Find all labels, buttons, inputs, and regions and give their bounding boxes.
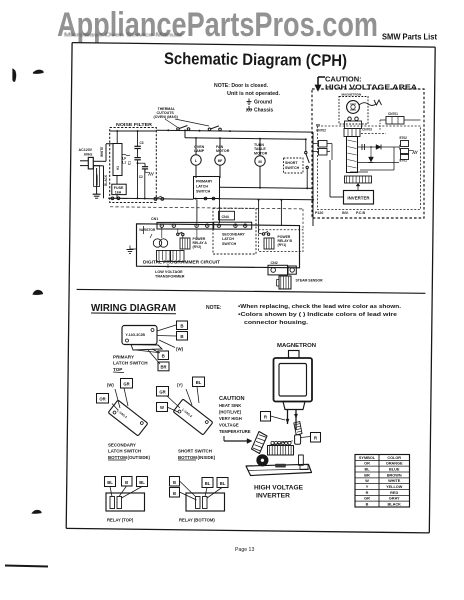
svg-text:TRANSFORMER: TRANSFORMER (155, 275, 185, 279)
svg-text:TOP: TOP (113, 367, 122, 372)
svg-text:Y-14G-3C2B: Y-14G-3C2B (126, 333, 146, 337)
svg-text:P120: P120 (315, 211, 323, 215)
svg-text:C1: C1 (128, 161, 132, 165)
svg-text:SECONDARY: SECONDARY (108, 443, 136, 448)
svg-text:BROWN: BROWN (387, 473, 402, 477)
svg-text:Unit is not operated.: Unit is not operated. (227, 91, 281, 97)
svg-text:CN4: CN4 (222, 215, 229, 219)
svg-text:INVERTER: INVERTER (347, 196, 370, 201)
svg-text:INV.: INV. (342, 211, 349, 215)
svg-text:connector housing.: connector housing. (244, 320, 309, 326)
svg-text:H1: H1 (116, 166, 120, 170)
svg-text:RELAY (TOP): RELAY (TOP) (107, 518, 134, 523)
svg-text:PRIMARY: PRIMARY (196, 180, 213, 184)
svg-text:C2: C2 (139, 175, 143, 179)
svg-text:Y: Y (366, 485, 369, 489)
svg-text:R: R (366, 491, 369, 495)
svg-text:LATCH: LATCH (222, 237, 234, 241)
svg-text:GR: GR (159, 390, 165, 395)
svg-text:(INSIDE): (INSIDE) (198, 455, 216, 460)
svg-text:CN1: CN1 (151, 217, 158, 221)
svg-text:LOW VOLTAGE: LOW VOLTAGE (155, 270, 183, 274)
svg-text:BR: BR (364, 473, 370, 477)
svg-text:SHORT: SHORT (285, 161, 298, 165)
svg-text:INVERTER: INVERTER (256, 493, 291, 500)
svg-text:SYMBOL: SYMBOL (359, 456, 376, 460)
svg-text:NOISE FILTER: NOISE FILTER (116, 122, 153, 128)
svg-text:(Y): (Y) (177, 383, 183, 388)
svg-text:GR: GR (123, 382, 129, 387)
svg-text:MOTOR: MOTOR (216, 149, 230, 153)
svg-text:E702: E702 (400, 136, 408, 140)
svg-text:YELLOW: YELLOW (386, 485, 403, 489)
svg-text:SMW Parts List: SMW Parts List (382, 32, 437, 42)
svg-text:BR: BR (160, 365, 166, 370)
svg-text:WHITE: WHITE (100, 147, 104, 157)
svg-text:SWITCH: SWITCH (285, 166, 300, 170)
svg-text:WIRING DIAGRAM: WIRING DIAGRAM (91, 302, 176, 314)
svg-text:16A: 16A (115, 190, 122, 194)
svg-text:(RY1): (RY1) (278, 243, 287, 247)
svg-text:L1: L1 (122, 161, 126, 165)
svg-text:COLOR: COLOR (387, 456, 401, 460)
svg-text:Chassis: Chassis (254, 108, 273, 114)
svg-text:B: B (180, 334, 183, 339)
svg-text:GREEN: GREEN (95, 174, 99, 186)
svg-text:BL: BL (196, 380, 202, 385)
svg-text:NOTE: Door is closed.: NOTE: Door is closed. (214, 83, 269, 89)
svg-text:GRAY: GRAY (389, 497, 400, 501)
svg-text:(W): (W) (176, 347, 184, 352)
svg-text:BOTTOM: BOTTOM (178, 455, 197, 460)
svg-text:LATCH SWITCH: LATCH SWITCH (108, 449, 141, 454)
svg-text:(OVEN) (MAG): (OVEN) (MAG) (154, 115, 179, 119)
svg-text:•Colors shown by ( ) Indicate: •Colors shown by ( ) Indicate colors of … (238, 312, 397, 318)
svg-text:BL: BL (364, 467, 370, 471)
svg-text:B: B (125, 480, 128, 485)
svg-text:ORANGE: ORANGE (386, 462, 403, 466)
svg-text:•When replacing, check the lea: •When replacing, check the lead wire col… (238, 304, 402, 310)
svg-text:LATCH SWITCH: LATCH SWITCH (113, 361, 148, 366)
svg-text:PRIMARY: PRIMARY (113, 355, 134, 360)
svg-text:B: B (173, 480, 176, 485)
svg-text:HIGH VOLTAGE AREA: HIGH VOLTAGE AREA (325, 83, 418, 92)
svg-text:HEAT SINK: HEAT SINK (219, 403, 241, 408)
svg-text:B: B (366, 502, 369, 506)
svg-text:Page 13: Page 13 (235, 547, 254, 553)
svg-text:SHORT SWITCH: SHORT SWITCH (178, 449, 212, 454)
svg-text:CN2: CN2 (271, 261, 278, 265)
svg-text:GR: GR (364, 497, 370, 501)
svg-text:OR: OR (364, 462, 370, 466)
svg-text:RELAY (BOTTOM): RELAY (BOTTOM) (179, 518, 215, 523)
svg-text:RED: RED (390, 491, 398, 495)
svg-text:WHITE: WHITE (388, 479, 401, 483)
svg-text:(HOT/LIVE): (HOT/LIVE) (219, 410, 242, 415)
svg-text:BLACK: BLACK (104, 174, 108, 186)
svg-text:CAUTION: CAUTION (219, 396, 244, 402)
svg-text:BLUE: BLUE (389, 467, 400, 471)
svg-text:SWITCH: SWITCH (222, 242, 237, 246)
svg-text:CN703: CN703 (362, 128, 372, 132)
svg-text:MF: MF (218, 159, 223, 163)
svg-text:W: W (365, 479, 369, 483)
svg-text:CN701: CN701 (388, 112, 398, 116)
svg-text:VARISTOR: VARISTOR (139, 228, 156, 232)
svg-text:W: W (160, 405, 164, 410)
svg-text:Schematic Diagram (CPH): Schematic Diagram (CPH) (164, 50, 347, 70)
svg-text:BLACK: BLACK (388, 502, 402, 506)
svg-text:NOTE:: NOTE: (206, 305, 222, 311)
svg-text:MOTOR: MOTOR (254, 151, 268, 155)
svg-text:Microwave Oven Service Manual: Microwave Oven Service Manual (64, 33, 182, 39)
svg-text:STEAM SENSOR: STEAM SENSOR (296, 279, 324, 283)
svg-text:AC120V: AC120V (79, 148, 93, 152)
svg-text:B: B (173, 491, 176, 496)
svg-text:MAGNETRON: MAGNETRON (277, 343, 316, 349)
svg-text:SECONDARY: SECONDARY (222, 233, 245, 237)
svg-text:OR: OR (99, 397, 105, 402)
svg-text:BL: BL (205, 481, 211, 486)
svg-text:VOLTAGE: VOLTAGE (219, 423, 239, 428)
svg-text:P5: P5 (316, 124, 320, 128)
svg-text:VERY HIGH: VERY HIGH (219, 416, 242, 421)
svg-text:P.C.B: P.C.B (356, 211, 366, 215)
svg-text:C3: C3 (140, 141, 144, 145)
svg-text:(RY2): (RY2) (193, 245, 202, 249)
svg-text:60Hz: 60Hz (84, 153, 93, 157)
svg-text:Ground: Ground (254, 100, 272, 106)
svg-text:LATCH: LATCH (196, 185, 208, 189)
svg-text:BL: BL (139, 480, 145, 485)
svg-text:B: B (180, 323, 183, 328)
svg-text:(OUTSIDE): (OUTSIDE) (128, 455, 151, 460)
svg-text:BL: BL (107, 480, 113, 485)
svg-text:B: B (162, 353, 165, 358)
svg-text:BOTTOM: BOTTOM (108, 455, 127, 460)
svg-text:BL: BL (220, 481, 226, 486)
svg-text:HIGH VOLTAGE: HIGH VOLTAGE (254, 485, 303, 492)
svg-text:(W): (W) (107, 383, 114, 388)
svg-text:SWITCH: SWITCH (196, 190, 211, 194)
svg-text:TEMPERATURE: TEMPERATURE (219, 429, 251, 434)
svg-text:MAGNETRON: MAGNETRON (342, 93, 362, 97)
